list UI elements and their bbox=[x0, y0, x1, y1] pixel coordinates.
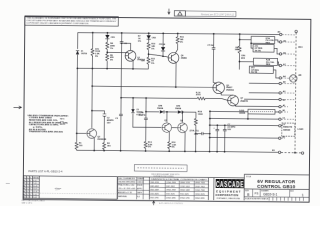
svg-text:FRACTIONS ± 1/64: FRACTIONS ± 1/64 bbox=[118, 184, 134, 187]
svg-text:17/32 .5312: 17/32 .5312 bbox=[180, 186, 190, 188]
svg-text:CR D4: CR D4 bbox=[159, 43, 166, 46]
svg-text:REV A: REV A bbox=[33, 176, 39, 179]
svg-text:1: 1 bbox=[27, 177, 28, 179]
svg-text:3/64 .0469: 3/64 .0469 bbox=[150, 189, 159, 191]
svg-text:50V: 50V bbox=[227, 129, 231, 131]
svg-text:5%: 5% bbox=[148, 147, 151, 149]
label C41D bbox=[239, 109, 246, 114]
svg-text:1/16 .0625: 1/16 .0625 bbox=[150, 193, 159, 195]
svg-text:3: 3 bbox=[27, 183, 28, 185]
resistor R12 bbox=[168, 141, 177, 152]
svg-text:13/16 .8125: 13/16 .8125 bbox=[195, 194, 205, 196]
transistor Q2 bbox=[87, 129, 107, 141]
svg-text:21/64 .3281: 21/64 .3281 bbox=[166, 198, 176, 200]
svg-text:4TR: 4TR bbox=[60, 121, 64, 123]
svg-text:ANGLES ± 0° 30': ANGLES ± 0° 30' bbox=[118, 191, 133, 194]
svg-text:4: 4 bbox=[30, 186, 31, 188]
wire Q6 emitter bbox=[175, 62, 177, 88]
svg-text:EQUIPMENT: EQUIPMENT bbox=[216, 189, 241, 193]
resistor R2 bbox=[103, 142, 112, 151]
wire rail 4 bbox=[121, 98, 228, 101]
wire K1A left bbox=[240, 39, 251, 41]
wire Q6 base bbox=[148, 54, 168, 57]
svg-text:45MFD: 45MFD bbox=[139, 114, 146, 117]
wire K2A left bbox=[239, 61, 253, 63]
wire row y110 bbox=[210, 110, 286, 114]
node wire x146 bbox=[145, 97, 147, 152]
label R7 bbox=[138, 36, 142, 43]
terminal load return bbox=[301, 152, 303, 154]
resistor R16 (horizontal) bbox=[196, 92, 206, 100]
indicator lamp DS1 bbox=[290, 73, 302, 82]
wire destination labels bbox=[60, 118, 66, 126]
svg-text:A: A bbox=[220, 181, 224, 190]
node wire x213 bbox=[212, 33, 217, 84]
resistor box R20 bbox=[248, 109, 275, 114]
wire Q4 collector bbox=[182, 111, 184, 122]
svg-text:C: C bbox=[228, 181, 232, 190]
transistor Q7 bbox=[228, 95, 249, 106]
wire Q5 emitter to Q7 collector bbox=[221, 92, 233, 95]
bus wire x210 bbox=[209, 110, 211, 152]
capacitor C1 bbox=[120, 42, 128, 45]
svg-text:8-4: 8-4 bbox=[137, 196, 140, 198]
svg-text:6: 6 bbox=[30, 180, 31, 182]
wire Q2 emitter bbox=[93, 138, 95, 151]
resistor R1 bbox=[75, 141, 83, 150]
zener Z2 bbox=[131, 97, 162, 128]
svg-text:PARTS LIST A-PL-GB10-2-4: PARTS LIST A-PL-GB10-2-4 bbox=[28, 170, 63, 173]
svg-text:REMOTE: REMOTE bbox=[283, 127, 293, 129]
transistor Q3 bbox=[162, 120, 172, 133]
diode CR4 bbox=[159, 43, 166, 51]
capacitor C4 bbox=[207, 44, 215, 49]
svg-text:1%: 1% bbox=[110, 48, 113, 50]
wire row y136.2 bbox=[210, 136, 286, 140]
wire row y123.1 bbox=[210, 123, 286, 127]
svg-text:5/16 .3125: 5/16 .3125 bbox=[166, 193, 175, 195]
svg-text:UNLESS SPECIFIED: UNLESS SPECIFIED bbox=[118, 181, 136, 183]
svg-text:CT D4: CT D4 bbox=[207, 44, 214, 47]
svg-text:25/32 .7812: 25/32 .7812 bbox=[195, 186, 205, 188]
wire row y97.5 bbox=[244, 98, 286, 102]
node wire x177 bbox=[176, 33, 179, 53]
svg-text:4: 4 bbox=[27, 194, 28, 196]
terminal A6 bbox=[279, 52, 286, 56]
label LOAD bbox=[297, 128, 303, 131]
svg-text:5%: 5% bbox=[180, 42, 183, 44]
revision strip arrow bbox=[168, 9, 170, 15]
terminal A1 bbox=[279, 104, 286, 108]
svg-text:9/16 .5625: 9/16 .5625 bbox=[180, 194, 189, 196]
svg-text:4: 4 bbox=[30, 177, 31, 179]
left margin zone arrow bbox=[13, 106, 21, 109]
svg-text:5: 5 bbox=[27, 197, 28, 199]
svg-text:SCALE NONE: SCALE NONE bbox=[245, 197, 257, 200]
svg-text:33/64 .5156: 33/64 .5156 bbox=[180, 182, 190, 184]
svg-text:51/64 .7969: 51/64 .7969 bbox=[195, 190, 205, 192]
svg-text:1N664: 1N664 bbox=[175, 107, 182, 110]
svg-text:37/64 .5781: 37/64 .5781 bbox=[180, 198, 190, 200]
terminal A5 bbox=[279, 40, 286, 44]
svg-text:53/64 .8281: 53/64 .8281 bbox=[195, 198, 205, 200]
svg-text:SURFACE REQUIRED: SURFACE REQUIRED bbox=[153, 175, 174, 178]
svg-text:1N664: 1N664 bbox=[157, 107, 164, 110]
svg-text:OHMS: OHMS bbox=[239, 113, 246, 115]
svg-text:TITLE: TITLE bbox=[246, 176, 252, 178]
wire K1A right to A5 bbox=[275, 40, 280, 42]
svg-text:A: A bbox=[232, 181, 236, 190]
remote sense dashed box bbox=[282, 123, 295, 136]
diode CR9 bbox=[175, 105, 182, 113]
svg-text:6: 6 bbox=[30, 188, 31, 190]
wire Q1 emitter bbox=[132, 60, 134, 69]
transistor Q5 bbox=[213, 82, 235, 94]
svg-text:APPD: APPD bbox=[137, 187, 143, 190]
svg-text:5%: 5% bbox=[151, 48, 154, 50]
svg-text:CONTROL GB10: CONTROL GB10 bbox=[257, 184, 296, 189]
diode CR2 bbox=[147, 35, 157, 39]
svg-text:NEG: NEG bbox=[60, 118, 65, 120]
resistor R15 bbox=[176, 36, 184, 45]
svg-text:(Z1A, ZL): (Z1A, ZL) bbox=[190, 129, 199, 132]
svg-text:17/64 .2656: 17/64 .2656 bbox=[166, 182, 176, 184]
wire K2A right to A7 bbox=[277, 62, 279, 66]
svg-text:1/32 .0312: 1/32 .0312 bbox=[150, 186, 159, 188]
node wire x239 bbox=[239, 33, 241, 69]
terminal A7 bbox=[279, 63, 286, 67]
relay box K1A bbox=[251, 36, 275, 44]
svg-text:C: C bbox=[216, 181, 220, 190]
svg-text:GB10-S-1: GB10-S-1 bbox=[263, 193, 277, 197]
svg-text:TRANSISTORS ARE 2N1305: TRANSISTORS ARE 2N1305 bbox=[29, 130, 64, 133]
connector dashed line W33 bbox=[294, 30, 304, 152]
svg-text:9/32 .2812: 9/32 .2812 bbox=[166, 186, 175, 188]
bottom margin zone arrow bbox=[152, 201, 184, 206]
label CR6 bbox=[241, 55, 246, 59]
terminal bottom rail bbox=[278, 151, 280, 153]
rev status note under border bbox=[22, 199, 46, 205]
notes text block bbox=[27, 114, 68, 134]
svg-text:Revised per ECO 1047 QW 8-12: Revised per ECO 1047 QW 8-12 bbox=[201, 12, 235, 16]
svg-text:1: 1 bbox=[27, 186, 28, 188]
resistor R10 bbox=[147, 42, 156, 51]
relay box 2T1 bbox=[253, 44, 274, 52]
svg-text:2: 2 bbox=[30, 183, 31, 185]
svg-text:1-4-2: 1-4-2 bbox=[33, 194, 37, 196]
resistor R4 bbox=[106, 41, 116, 50]
dotted separator in parts list box bbox=[40, 192, 116, 195]
svg-text:AB: AB bbox=[298, 74, 302, 77]
svg-text:5%: 5% bbox=[138, 41, 141, 43]
svg-text:PORTLAND 2, OREGON USA: PORTLAND 2, OREGON USA bbox=[217, 197, 241, 200]
wire rail 5 bbox=[146, 111, 196, 113]
transistor Q1 bbox=[125, 50, 145, 61]
svg-text:TH TR: TH TR bbox=[251, 72, 258, 74]
svg-text:5%: 5% bbox=[110, 60, 113, 62]
svg-text:SENSE: SENSE bbox=[283, 130, 291, 132]
svg-text:.XX ± .01 .XXX ±.005: .XX ± .01 .XXX ±.005 bbox=[118, 188, 135, 190]
svg-text:11-41: 11-41 bbox=[33, 188, 37, 190]
svg-text:CHECK: CHECK bbox=[137, 182, 144, 184]
svg-text:D: D bbox=[236, 181, 240, 190]
diode CR8 bbox=[157, 105, 164, 113]
wire 2T2 right bbox=[273, 70, 279, 78]
wire Q1 base bbox=[106, 51, 128, 53]
svg-text:2: 2 bbox=[27, 180, 28, 182]
svg-text:2-4-2: 2-4-2 bbox=[33, 197, 37, 199]
wire row y91 bbox=[249, 90, 286, 94]
wire 2T1 left bbox=[250, 42, 253, 48]
svg-text:FS: FS bbox=[255, 191, 259, 195]
svg-text:2N3008B: 2N3008B bbox=[97, 139, 106, 141]
label 1D4 bbox=[141, 59, 146, 62]
wire top rail (bus +) bbox=[78, 33, 280, 35]
svg-text:DATE: DATE bbox=[137, 191, 142, 194]
svg-text:19/64 .2969: 19/64 .2969 bbox=[166, 190, 176, 192]
resistor R18 bbox=[194, 111, 203, 126]
svg-text:1D00: 1D00 bbox=[198, 114, 204, 116]
svg-text:5/64 .0781: 5/64 .0781 bbox=[150, 197, 159, 199]
zener Z1 bbox=[76, 51, 88, 56]
svg-text:8-4-1: 8-4-1 bbox=[33, 180, 37, 182]
revision note text bbox=[201, 12, 235, 16]
resistor R13 bbox=[144, 140, 153, 149]
terminal A4 bbox=[279, 75, 286, 79]
svg-text:TH TR: TH TR bbox=[255, 50, 262, 52]
svg-text:10-41: 10-41 bbox=[33, 186, 38, 188]
resistor R8 bbox=[235, 45, 241, 54]
svg-text:A-PL-GB10-2-4 CONTROL: A-PL-GB10-2-4 CONTROL bbox=[159, 202, 184, 205]
node wire x148 bbox=[148, 32, 150, 69]
diode CR1 bbox=[105, 35, 115, 39]
capacitor C3 bbox=[115, 114, 122, 120]
wire R20 box to row117 bbox=[247, 114, 249, 120]
svg-text:15V: 15V bbox=[107, 122, 111, 124]
capacitor C10 bbox=[194, 132, 211, 136]
svg-text:COPYRIGHT 1964 BY CASCADE EQUI: COPYRIGHT 1964 BY CASCADE EQUIPMENT CORP… bbox=[26, 22, 89, 26]
svg-text:ENGR: ENGR bbox=[137, 185, 143, 187]
company logo block bbox=[208, 178, 244, 201]
node wire x92 bbox=[91, 32, 94, 128]
title block bbox=[244, 174, 309, 201]
node wire x121 bbox=[120, 32, 123, 152]
transistor Q4 bbox=[178, 119, 188, 133]
svg-text:3: 3 bbox=[27, 191, 28, 193]
wire 2T1 right to A6 bbox=[274, 48, 279, 54]
svg-text:5: 5 bbox=[30, 197, 31, 199]
capacitor C6 bbox=[223, 124, 236, 153]
wire bottom rail bbox=[77, 148, 279, 152]
terminal A9 bbox=[278, 31, 282, 36]
wire Q3 Q4 link bbox=[172, 127, 177, 129]
wire bottom dashed to load bbox=[281, 152, 301, 154]
svg-text:SHT 1 OF 1: SHT 1 OF 1 bbox=[22, 203, 34, 205]
node wire x196 bbox=[195, 112, 197, 152]
svg-text:REV STATUS: REV STATUS bbox=[257, 197, 269, 200]
relay box K2A bbox=[253, 58, 277, 66]
svg-text:3: 3 bbox=[30, 194, 31, 196]
svg-text:49/64 .7656: 49/64 .7656 bbox=[195, 182, 205, 184]
node left column x77 bbox=[76, 33, 79, 142]
svg-text:RES: RES bbox=[266, 64, 271, 66]
svg-text:CORPORATION: CORPORATION bbox=[215, 193, 238, 197]
svg-text:1: 1 bbox=[30, 191, 31, 193]
svg-text:LOAD: LOAD bbox=[297, 128, 303, 131]
svg-text:5%: 5% bbox=[95, 56, 98, 58]
wire Q1 collector bbox=[122, 43, 131, 50]
resistor R11 bbox=[147, 56, 156, 65]
svg-text:MATERIAL: MATERIAL bbox=[118, 195, 127, 198]
node wire x106.7 bbox=[106, 32, 108, 70]
wire Q3 collector bbox=[166, 111, 168, 122]
capacitor C7 bbox=[138, 112, 147, 119]
resistor R5 bbox=[106, 53, 115, 62]
svg-text:1/64 .0156: 1/64 .0156 bbox=[150, 182, 159, 184]
svg-text:DIM. TOLERANCES: DIM. TOLERANCES bbox=[118, 177, 135, 180]
svg-text:2N456: 2N456 bbox=[181, 56, 188, 59]
svg-text:12-41: 12-41 bbox=[33, 191, 38, 193]
wire C2 branch bbox=[92, 111, 106, 152]
svg-text:2N456A: 2N456A bbox=[226, 89, 234, 92]
capacitor C2 bbox=[103, 114, 115, 125]
svg-text:5%: 5% bbox=[172, 147, 175, 149]
tolerance block bbox=[117, 177, 244, 201]
capacitor C5 bbox=[213, 124, 219, 152]
wire rail 3 bbox=[92, 86, 213, 87]
wire rail 2 bbox=[77, 67, 148, 70]
svg-text:5%: 5% bbox=[151, 63, 154, 65]
general notice box bbox=[25, 16, 119, 26]
svg-text:2N457B: 2N457B bbox=[240, 100, 248, 103]
svg-text:RES: RES bbox=[266, 42, 271, 44]
svg-text:2: 2 bbox=[27, 188, 28, 190]
svg-text:1: 1 bbox=[302, 193, 304, 197]
node wire x162 bbox=[162, 33, 164, 58]
revision table bbox=[23, 176, 117, 200]
label Z1A ZL bbox=[190, 129, 199, 132]
revision zone box bbox=[174, 11, 236, 17]
wire Q7 emitter bbox=[236, 105, 279, 107]
svg-text:35/64 .5469: 35/64 .5469 bbox=[180, 190, 190, 192]
sheet border frame bbox=[23, 17, 311, 203]
transistor Q6 bbox=[168, 53, 188, 64]
svg-text:BRPF: BRPF bbox=[60, 124, 66, 126]
wire row y81.5 bbox=[249, 80, 286, 84]
svg-text:DRAWN: DRAWN bbox=[137, 177, 144, 180]
svg-text:9-4-1: 9-4-1 bbox=[33, 183, 37, 185]
dashed stubs to connector bbox=[281, 35, 295, 139]
left margin tick bbox=[6, 182, 10, 184]
wire row y117.2 bbox=[210, 117, 286, 121]
wire Q3 emitter bbox=[168, 132, 170, 141]
wire Q2 base bbox=[76, 132, 86, 134]
parts list title text bbox=[28, 170, 63, 173]
decimal conversion chart bbox=[149, 177, 208, 200]
svg-text:1N759: 1N759 bbox=[81, 53, 88, 55]
wire Q4 emitter bbox=[184, 132, 186, 152]
heat sink dashed legend box bbox=[134, 164, 187, 178]
thermistor RT1 bbox=[91, 48, 101, 58]
relay box 2T2 bbox=[249, 66, 273, 74]
